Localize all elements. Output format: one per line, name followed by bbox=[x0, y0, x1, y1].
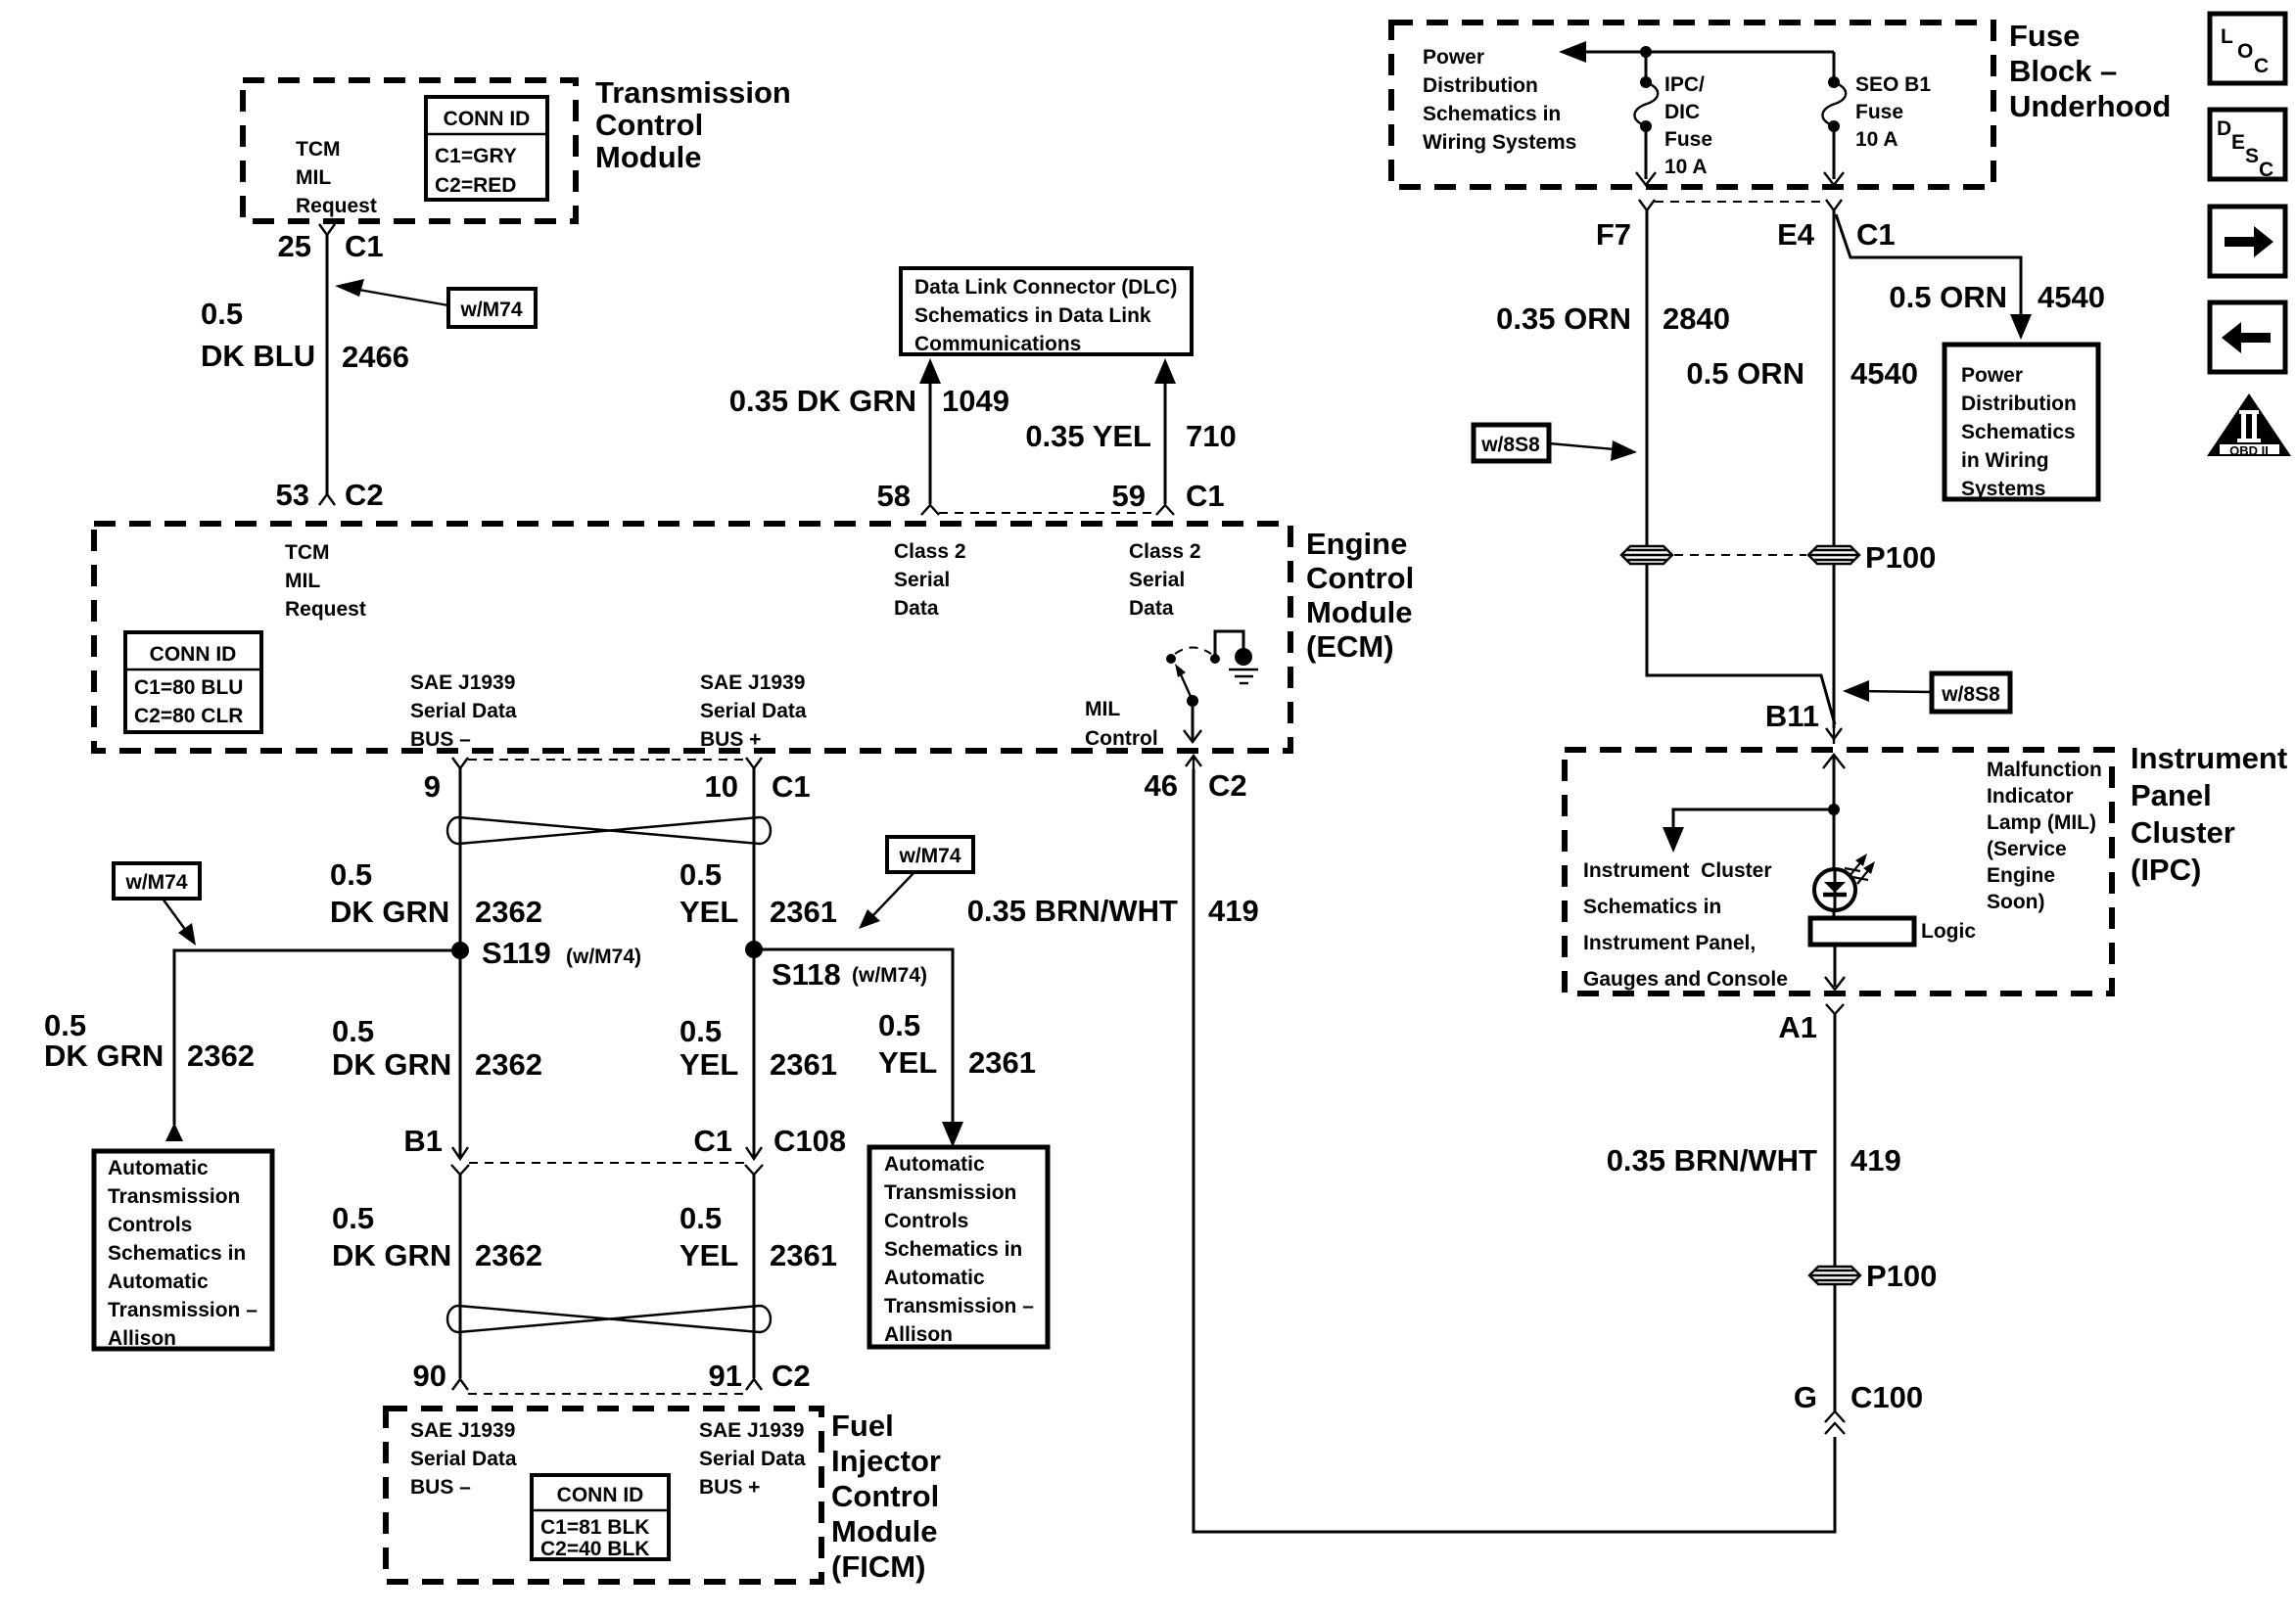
svg-text:C1: C1 bbox=[1186, 479, 1225, 513]
svg-text:Communications: Communications bbox=[914, 333, 1081, 355]
wire E4 continues below P100 bbox=[1833, 565, 1836, 728]
MIL control driver switch bbox=[1166, 631, 1258, 742]
svg-text:Serial: Serial bbox=[894, 569, 950, 591]
svg-text:DK GRN: DK GRN bbox=[44, 1039, 164, 1073]
svg-text:Control: Control bbox=[1306, 561, 1414, 595]
svg-text:Module: Module bbox=[831, 1514, 938, 1548]
svg-text:0.5: 0.5 bbox=[679, 1014, 722, 1048]
svg-text:Serial: Serial bbox=[1129, 569, 1185, 591]
transmission control module box U-TCM bbox=[243, 80, 576, 221]
svg-text:0.5: 0.5 bbox=[201, 297, 243, 331]
svg-text:Automatic: Automatic bbox=[108, 1157, 209, 1179]
svg-text:0.5: 0.5 bbox=[332, 1201, 374, 1235]
svg-text:0.35 BRN/WHT: 0.35 BRN/WHT bbox=[967, 894, 1178, 928]
svg-text:Request: Request bbox=[285, 598, 366, 621]
svg-text:0.35 BRN/WHT: 0.35 BRN/WHT bbox=[1607, 1143, 1817, 1178]
wire 2466 DK BLU bbox=[326, 235, 329, 494]
svg-text:Automatic: Automatic bbox=[108, 1270, 209, 1293]
svg-text:w/M74: w/M74 bbox=[124, 871, 187, 894]
switch pivot node bbox=[1187, 695, 1198, 707]
svg-text:D: D bbox=[2217, 117, 2231, 140]
inline connector C1/C108 (pin10 wire) bbox=[746, 1147, 762, 1159]
svg-text:w/8S8: w/8S8 bbox=[1480, 434, 1540, 456]
twisted pair symbol lower bbox=[447, 1306, 771, 1332]
svg-text:0.5: 0.5 bbox=[878, 1008, 920, 1042]
svg-text:2361: 2361 bbox=[770, 1238, 837, 1272]
svg-text:C1=80 BLU: C1=80 BLU bbox=[134, 676, 243, 699]
svg-text:Data: Data bbox=[894, 597, 939, 620]
svg-text:Schematics: Schematics bbox=[1961, 421, 2076, 443]
svg-text:Power: Power bbox=[1961, 364, 2023, 387]
svg-text:C: C bbox=[2259, 159, 2273, 181]
svg-text:SEO B1: SEO B1 bbox=[1855, 73, 1931, 96]
svg-text:419: 419 bbox=[1208, 894, 1259, 928]
svg-text:Controls: Controls bbox=[884, 1210, 968, 1232]
svg-text:C1: C1 bbox=[345, 229, 384, 263]
svg-text:0.5: 0.5 bbox=[332, 1014, 374, 1048]
svg-text:Allison: Allison bbox=[884, 1323, 953, 1346]
svg-text:Injector: Injector bbox=[831, 1444, 941, 1478]
switch contact node right bbox=[1210, 654, 1220, 664]
svg-text:YEL: YEL bbox=[679, 1238, 738, 1272]
CONN ID table (ECM) bbox=[125, 632, 261, 732]
wire 419 BRN/WHT (A1 to C100) bbox=[1834, 1014, 1837, 1413]
engine control module box U-ECM bbox=[94, 524, 1290, 751]
logic block bbox=[1810, 918, 1914, 945]
wire 710 YEL (pin 59 up) bbox=[1164, 372, 1167, 504]
svg-text:BUS +: BUS + bbox=[700, 728, 761, 751]
svg-text:(Service: (Service bbox=[1987, 838, 2067, 860]
svg-text:CONN ID: CONN ID bbox=[557, 1484, 644, 1506]
svg-text:Instrument Cluster: Instrument Cluster bbox=[1583, 859, 1772, 882]
svg-text:91: 91 bbox=[709, 1359, 742, 1393]
svg-text:53: 53 bbox=[276, 478, 309, 512]
svg-text:B11: B11 bbox=[1765, 699, 1819, 733]
switch contact node left bbox=[1166, 654, 1176, 664]
wire 2840 ORN (F7 down) bbox=[1646, 210, 1649, 545]
svg-text:C108: C108 bbox=[773, 1124, 846, 1158]
svg-text:2361: 2361 bbox=[968, 1045, 1036, 1080]
svg-text:0.35 ORN: 0.35 ORN bbox=[1496, 301, 1631, 336]
svg-text:Data: Data bbox=[1129, 597, 1174, 620]
svg-text:46: 46 bbox=[1145, 768, 1178, 803]
CONN ID table (FICM) bbox=[532, 1475, 669, 1560]
svg-text:Transmission –: Transmission – bbox=[884, 1295, 1034, 1317]
wire BUS+ YEL (pin10 down) bbox=[753, 768, 756, 1158]
svg-text:S: S bbox=[2245, 145, 2259, 167]
svg-text:w/M74: w/M74 bbox=[898, 845, 961, 867]
harness tag w/M74 (TCM wire) bbox=[335, 279, 536, 327]
connector pin 91 / C2 (FICM) bbox=[746, 1379, 762, 1390]
svg-text:Transmission: Transmission bbox=[595, 75, 791, 110]
svg-text:0.5: 0.5 bbox=[44, 1008, 86, 1042]
fuse IPC/DIC 10A bbox=[1634, 52, 1712, 185]
inline connector B1 (pin9 wire) bbox=[452, 1147, 468, 1159]
svg-text:2361: 2361 bbox=[770, 895, 837, 929]
connector C2 pin 46 bbox=[1186, 756, 1201, 766]
arrowhead down into Allison box bbox=[942, 1122, 963, 1147]
connector E4 / C1 bbox=[1826, 200, 1842, 210]
svg-text:S119: S119 bbox=[482, 936, 551, 970]
svg-text:0.5: 0.5 bbox=[679, 857, 722, 892]
wire 1049 DK GRN (pin 58 up) bbox=[929, 372, 932, 504]
svg-text:TCM: TCM bbox=[285, 541, 330, 564]
fuse block underhood box bbox=[1391, 23, 1993, 187]
connector pin 90 (FICM) bbox=[452, 1379, 468, 1390]
ground symbol bbox=[1229, 669, 1258, 670]
svg-text:Automatic: Automatic bbox=[884, 1153, 985, 1176]
branch wire C1 to power distribution reference bbox=[1836, 214, 2021, 326]
svg-text:Instrument: Instrument bbox=[2131, 741, 2287, 775]
svg-text:Class 2: Class 2 bbox=[1129, 540, 1201, 563]
svg-text:C2=40 BLK: C2=40 BLK bbox=[540, 1538, 649, 1560]
svg-text:419: 419 bbox=[1851, 1143, 1901, 1178]
svg-text:SAE J1939: SAE J1939 bbox=[410, 671, 515, 694]
svg-text:Control: Control bbox=[831, 1479, 939, 1513]
fuel injector control module box U-FICM bbox=[386, 1409, 821, 1582]
svg-text:2840: 2840 bbox=[1663, 301, 1730, 336]
bracket to ground bbox=[1215, 631, 1243, 656]
CONN ID table (TCM) bbox=[426, 97, 547, 200]
svg-text:C2=80 CLR: C2=80 CLR bbox=[134, 705, 243, 727]
svg-text:Gauges and Console: Gauges and Console bbox=[1583, 968, 1788, 991]
svg-text:C1=81 BLK: C1=81 BLK bbox=[540, 1516, 649, 1539]
pass-through grommet P100 (E4 wire) bbox=[1808, 546, 1859, 564]
LOC icon bbox=[2210, 14, 2285, 83]
svg-text:Panel: Panel bbox=[2131, 778, 2212, 812]
svg-text:Schematics in: Schematics in bbox=[1423, 103, 1561, 125]
svg-text:MIL: MIL bbox=[1085, 698, 1120, 720]
wire below logic to A1 bbox=[1834, 945, 1837, 987]
LED lamp MIL bbox=[1814, 854, 1875, 910]
svg-text:10 A: 10 A bbox=[1664, 156, 1708, 178]
forward arrow icon bbox=[2210, 207, 2285, 276]
wire S119 branch to Allison bbox=[174, 950, 460, 1125]
svg-text:(IPC): (IPC) bbox=[2131, 853, 2201, 887]
svg-text:Serial Data: Serial Data bbox=[700, 700, 807, 722]
svg-text:Distribution: Distribution bbox=[1961, 393, 2077, 415]
svg-text:YEL: YEL bbox=[679, 1047, 738, 1082]
svg-text:MIL: MIL bbox=[296, 166, 331, 189]
pin row dashed link 9-10 bbox=[468, 759, 746, 761]
svg-text:(w/M74): (w/M74) bbox=[852, 964, 927, 987]
svg-text:Indicator: Indicator bbox=[1987, 785, 2074, 808]
svg-text:10: 10 bbox=[705, 769, 738, 804]
svg-text:Module: Module bbox=[1306, 595, 1413, 629]
wire BUS- DK GRN (pin9 down) bbox=[459, 768, 462, 1158]
svg-text:(w/M74): (w/M74) bbox=[566, 946, 641, 968]
connector A1 bbox=[1826, 1004, 1844, 1014]
svg-text:0.5 ORN: 0.5 ORN bbox=[1889, 280, 2007, 314]
svg-text:C2: C2 bbox=[1208, 768, 1247, 803]
svg-text:710: 710 bbox=[1186, 419, 1237, 453]
splice S118 bbox=[745, 941, 763, 958]
svg-text:Class 2: Class 2 bbox=[894, 540, 966, 563]
power distribution reference box bbox=[1945, 345, 2098, 500]
branch wire to instrument cluster schematics bbox=[1673, 809, 1834, 840]
svg-text:1049: 1049 bbox=[942, 384, 1009, 418]
svg-text:OBD II: OBD II bbox=[2229, 443, 2269, 458]
svg-text:Serial Data: Serial Data bbox=[410, 700, 517, 722]
svg-text:Block –: Block – bbox=[2009, 54, 2117, 88]
svg-text:F7: F7 bbox=[1596, 217, 1631, 252]
svg-text:E4: E4 bbox=[1777, 217, 1815, 252]
connector C1 pin 25 (TCM) bbox=[319, 224, 335, 235]
svg-text:SAE J1939: SAE J1939 bbox=[699, 1419, 804, 1442]
svg-text:Instrument Panel,: Instrument Panel, bbox=[1583, 932, 1756, 954]
svg-text:SAE J1939: SAE J1939 bbox=[410, 1419, 515, 1442]
svg-text:TCM: TCM bbox=[296, 138, 341, 161]
svg-text:DK GRN: DK GRN bbox=[332, 1238, 451, 1272]
svg-text:O: O bbox=[2237, 40, 2253, 63]
svg-text:C2=RED: C2=RED bbox=[435, 174, 516, 197]
svg-text:Schematics in Data Link: Schematics in Data Link bbox=[914, 304, 1151, 327]
svg-text:C1: C1 bbox=[772, 769, 811, 804]
connector pin 9 (ECM) bbox=[452, 758, 468, 768]
svg-text:Schematics in: Schematics in bbox=[884, 1238, 1022, 1261]
svg-text:IPC/: IPC/ bbox=[1664, 73, 1705, 96]
svg-text:(FICM): (FICM) bbox=[831, 1549, 925, 1584]
svg-text:Transmission: Transmission bbox=[108, 1185, 240, 1208]
svg-text:2362: 2362 bbox=[475, 895, 542, 929]
svg-text:YEL: YEL bbox=[679, 895, 738, 929]
svg-text:DK GRN: DK GRN bbox=[332, 1047, 451, 1082]
wire into IPC with chevron arrow bbox=[1823, 755, 1845, 768]
data link connector reference box bbox=[901, 268, 1192, 355]
pin row dashed link 90-91 bbox=[468, 1393, 746, 1395]
splice S119 bbox=[451, 942, 469, 959]
harness tag w/8S8 (F7 wire) bbox=[1474, 425, 1637, 461]
wire YEL below C108 bbox=[753, 1175, 756, 1378]
connector pin 59 bbox=[1156, 505, 1174, 515]
svg-text:G: G bbox=[1794, 1380, 1817, 1414]
svg-text:Transmission –: Transmission – bbox=[108, 1299, 258, 1321]
dashed link between P100 grommets bbox=[1674, 554, 1806, 556]
DESC icon bbox=[2210, 110, 2285, 181]
svg-text:4540: 4540 bbox=[2038, 280, 2105, 314]
svg-text:90: 90 bbox=[413, 1359, 446, 1393]
svg-text:MIL: MIL bbox=[285, 570, 320, 592]
connector row dashed link B1-C108 bbox=[469, 1162, 745, 1164]
connector pin 10 (ECM) bbox=[746, 758, 762, 768]
svg-text:Wiring Systems: Wiring Systems bbox=[1423, 131, 1576, 154]
svg-text:Request: Request bbox=[296, 195, 377, 217]
connector pin 58 bbox=[921, 505, 939, 515]
svg-text:Fuse: Fuse bbox=[1855, 101, 1903, 123]
pass-through grommet P100 (419 wire) bbox=[1809, 1267, 1860, 1284]
harness tag w/M74 (S119) bbox=[114, 863, 200, 946]
svg-text:Underhood: Underhood bbox=[2009, 89, 2171, 123]
wire F7 continues below P100 bbox=[1647, 565, 1835, 724]
arrowhead into Allison reference (up-triangle) bbox=[165, 1123, 183, 1141]
svg-text:Automatic: Automatic bbox=[884, 1267, 985, 1289]
svg-text:Control: Control bbox=[595, 108, 703, 142]
pass-through grommet P100 (F7 wire) bbox=[1621, 546, 1672, 564]
svg-text:Engine: Engine bbox=[1306, 527, 1407, 561]
svg-text:C2: C2 bbox=[772, 1359, 811, 1393]
svg-text:DK GRN: DK GRN bbox=[330, 895, 449, 929]
feed wire with arrow to power distribution bbox=[1571, 51, 1834, 54]
svg-text:Transmission: Transmission bbox=[884, 1181, 1016, 1204]
svg-text:CONN ID: CONN ID bbox=[444, 108, 531, 130]
svg-text:Cluster: Cluster bbox=[2131, 815, 2235, 850]
svg-text:Fuse: Fuse bbox=[1664, 128, 1712, 151]
svg-text:C100: C100 bbox=[1851, 1380, 1923, 1414]
svg-text:CONN ID: CONN ID bbox=[150, 643, 237, 666]
svg-text:Allison: Allison bbox=[108, 1327, 176, 1350]
svg-text:Power: Power bbox=[1423, 46, 1484, 69]
svg-text:0.35 DK GRN: 0.35 DK GRN bbox=[729, 384, 916, 418]
svg-text:Schematics in: Schematics in bbox=[108, 1242, 246, 1265]
svg-text:L: L bbox=[2221, 25, 2233, 48]
svg-text:Serial Data: Serial Data bbox=[699, 1448, 806, 1470]
svg-text:Soon): Soon) bbox=[1987, 891, 2044, 913]
svg-text:0.5: 0.5 bbox=[679, 1201, 722, 1235]
svg-text:Lamp (MIL): Lamp (MIL) bbox=[1987, 811, 2096, 834]
svg-text:C1: C1 bbox=[693, 1124, 732, 1158]
harness tag w/8S8 (B11 wire) bbox=[1843, 673, 2010, 712]
svg-text:E: E bbox=[2231, 131, 2245, 154]
Allison reference box (left) bbox=[94, 1151, 272, 1350]
svg-text:2362: 2362 bbox=[187, 1039, 255, 1073]
svg-text:BUS +: BUS + bbox=[699, 1476, 760, 1499]
svg-text:Logic: Logic bbox=[1921, 920, 1976, 943]
svg-text:in Wiring: in Wiring bbox=[1961, 449, 2049, 472]
svg-text:Module: Module bbox=[595, 140, 702, 174]
wire DK GRN below B1 bbox=[459, 1175, 462, 1378]
svg-text:0.5: 0.5 bbox=[330, 857, 372, 892]
svg-text:C2: C2 bbox=[345, 478, 384, 512]
svg-text:9: 9 bbox=[424, 769, 441, 804]
svg-text:C: C bbox=[2254, 55, 2269, 77]
Allison reference box (right) bbox=[869, 1147, 1048, 1347]
svg-text:Distribution: Distribution bbox=[1423, 74, 1538, 97]
svg-text:DK BLU: DK BLU bbox=[201, 339, 315, 373]
ground terminal dot bbox=[1235, 648, 1252, 666]
switch arm with arrow bbox=[1180, 672, 1193, 701]
svg-text:2362: 2362 bbox=[475, 1238, 542, 1272]
svg-text:B1: B1 bbox=[403, 1124, 443, 1158]
svg-text:SAE J1939: SAE J1939 bbox=[700, 671, 805, 694]
dashed throw arc bbox=[1175, 648, 1211, 655]
svg-text:Data Link Connector (DLC): Data Link Connector (DLC) bbox=[914, 276, 1177, 299]
back arrow icon bbox=[2210, 302, 2285, 372]
svg-text:25: 25 bbox=[278, 229, 311, 263]
svg-text:Control: Control bbox=[1085, 727, 1158, 750]
light emission arrows bbox=[1850, 860, 1862, 876]
svg-text:Engine: Engine bbox=[1987, 864, 2055, 887]
svg-text:S118: S118 bbox=[772, 957, 841, 992]
svg-text:P100: P100 bbox=[1865, 540, 1936, 575]
node at IPC/DIC fuse tap bbox=[1640, 46, 1652, 58]
svg-text:2466: 2466 bbox=[342, 340, 409, 374]
fuse SEO B1 10A bbox=[1822, 52, 1931, 185]
svg-text:w/M74: w/M74 bbox=[459, 299, 522, 321]
svg-text:0.35 YEL: 0.35 YEL bbox=[1025, 419, 1151, 453]
wire S118 branch to Allison (right) bbox=[754, 949, 953, 1133]
svg-text:C1=GRY: C1=GRY bbox=[435, 145, 517, 167]
wire from switch to pin 46 bbox=[1192, 701, 1195, 741]
svg-text:Schematics in: Schematics in bbox=[1583, 896, 1721, 918]
svg-text:DIC: DIC bbox=[1664, 101, 1700, 123]
svg-text:Systems: Systems bbox=[1961, 478, 2045, 500]
svg-text:4540: 4540 bbox=[1851, 356, 1918, 391]
svg-text:Controls: Controls bbox=[108, 1214, 192, 1236]
pin row dashed link F7-E4 bbox=[1655, 201, 1826, 203]
wire 4540 ORN (E4 down) bbox=[1833, 210, 1836, 545]
pin row dashed link 58-59 bbox=[939, 512, 1156, 514]
OBD II icon bbox=[2207, 393, 2291, 458]
svg-text:(ECM): (ECM) bbox=[1306, 629, 1394, 664]
svg-text:58: 58 bbox=[877, 479, 911, 513]
connector F7 bbox=[1639, 200, 1655, 210]
svg-text:w/8S8: w/8S8 bbox=[1941, 683, 2000, 706]
svg-text:10 A: 10 A bbox=[1855, 128, 1898, 151]
svg-text:59: 59 bbox=[1112, 479, 1146, 513]
node for cluster logic branch bbox=[1828, 804, 1840, 815]
svg-text:Malfunction: Malfunction bbox=[1987, 759, 2102, 781]
svg-text:C1: C1 bbox=[1856, 217, 1896, 252]
svg-text:Fuse: Fuse bbox=[2009, 19, 2080, 53]
twisted pair symbol upper bbox=[447, 817, 771, 844]
instrument panel cluster box U-IPC bbox=[1565, 750, 2112, 993]
harness tag w/M74 (S118) bbox=[859, 837, 973, 929]
svg-text:YEL: YEL bbox=[878, 1045, 937, 1080]
svg-text:0.5 ORN: 0.5 ORN bbox=[1686, 356, 1804, 391]
wire 419 BRN/WHT (ECM to C100 loop) bbox=[1194, 769, 1835, 1532]
svg-text:Fuel: Fuel bbox=[831, 1409, 894, 1443]
svg-text:P100: P100 bbox=[1866, 1259, 1937, 1293]
connector C2 pin 53 (ECM top) bbox=[319, 494, 335, 505]
svg-text:BUS –: BUS – bbox=[410, 1476, 471, 1499]
svg-text:2361: 2361 bbox=[770, 1047, 837, 1082]
svg-text:2362: 2362 bbox=[475, 1047, 542, 1082]
svg-text:A1: A1 bbox=[1778, 1010, 1817, 1044]
svg-text:Serial Data: Serial Data bbox=[410, 1448, 517, 1470]
svg-text:BUS –: BUS – bbox=[410, 728, 471, 751]
